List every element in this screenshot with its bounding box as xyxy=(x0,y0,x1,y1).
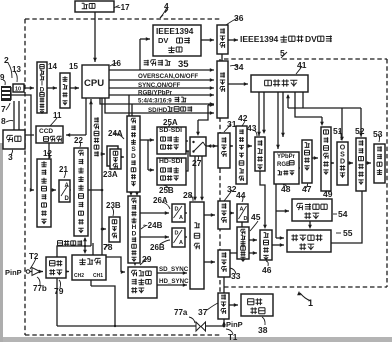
svg-text:IEEE1394: IEEE1394 xyxy=(156,26,194,36)
svg-text:43: 43 xyxy=(247,123,257,133)
svg-text:IEEE1394: IEEE1394 xyxy=(240,34,279,44)
svg-text:HD_SYNC: HD_SYNC xyxy=(159,278,189,285)
svg-text:YPbPr: YPbPr xyxy=(277,154,296,160)
svg-text:54: 54 xyxy=(338,209,348,219)
svg-text:26A: 26A xyxy=(153,196,168,205)
svg-text:PinP: PinP xyxy=(5,268,22,277)
svg-text:S: S xyxy=(340,152,345,159)
svg-text:OVERSCAN,ON/OFF: OVERSCAN,ON/OFF xyxy=(138,73,198,80)
svg-text:45: 45 xyxy=(251,212,261,222)
svg-text:S: S xyxy=(131,146,136,153)
svg-text:26B: 26B xyxy=(150,243,165,252)
svg-text:25A: 25A xyxy=(163,118,178,127)
svg-text:A: A xyxy=(179,215,183,221)
svg-text:PinP: PinP xyxy=(226,320,243,329)
svg-text:29: 29 xyxy=(142,254,152,264)
svg-text:24A: 24A xyxy=(108,129,123,138)
svg-text:A: A xyxy=(179,240,183,246)
svg-text:HD-SDI: HD-SDI xyxy=(159,158,183,165)
svg-text:52: 52 xyxy=(355,126,365,136)
svg-text:49: 49 xyxy=(323,189,333,199)
svg-text:5:4/4:3/16:9: 5:4/4:3/16:9 xyxy=(138,98,172,105)
svg-text:48: 48 xyxy=(281,184,291,194)
svg-text:CPU: CPU xyxy=(84,78,104,89)
svg-text:~24B: ~24B xyxy=(143,221,163,230)
svg-text:27: 27 xyxy=(192,158,202,168)
svg-text:34: 34 xyxy=(234,62,244,72)
svg-text:13: 13 xyxy=(12,65,21,74)
svg-text:77b: 77b xyxy=(33,284,47,293)
svg-text:D: D xyxy=(244,216,248,222)
svg-text:1: 1 xyxy=(308,298,313,308)
svg-text:DV: DV xyxy=(158,36,168,45)
svg-text:7: 7 xyxy=(1,104,6,114)
svg-text:RGB: RGB xyxy=(277,162,291,168)
svg-text:8: 8 xyxy=(1,116,6,126)
svg-text:28: 28 xyxy=(183,190,193,200)
svg-text:O: O xyxy=(340,145,346,152)
svg-text:11: 11 xyxy=(53,111,62,120)
svg-text:23A: 23A xyxy=(103,170,118,179)
svg-text:CCD: CCD xyxy=(39,128,53,135)
svg-text:37: 37 xyxy=(198,307,208,317)
svg-text:10: 10 xyxy=(15,87,21,93)
svg-text:25B: 25B xyxy=(159,186,174,195)
svg-text:33: 33 xyxy=(231,271,241,281)
svg-text:53: 53 xyxy=(373,129,383,139)
svg-text:4: 4 xyxy=(164,1,169,11)
svg-text:CH1: CH1 xyxy=(93,273,103,279)
svg-text:23B: 23B xyxy=(106,201,121,210)
svg-text:SD/HD: SD/HD xyxy=(148,107,168,114)
svg-text:SYNC,ON/OFF: SYNC,ON/OFF xyxy=(138,82,181,89)
svg-text:CH2: CH2 xyxy=(74,273,84,279)
svg-text:5: 5 xyxy=(280,48,285,58)
svg-text:RGB/YPbPr: RGB/YPbPr xyxy=(138,90,173,97)
svg-text:T1: T1 xyxy=(228,333,238,342)
svg-text:12: 12 xyxy=(43,149,52,158)
svg-text:T2: T2 xyxy=(29,252,39,261)
svg-text:21: 21 xyxy=(59,165,68,174)
svg-text:9: 9 xyxy=(0,73,5,82)
svg-text:D: D xyxy=(132,231,137,238)
svg-text:3: 3 xyxy=(8,152,13,162)
svg-text:DV: DV xyxy=(305,34,317,44)
svg-text:35: 35 xyxy=(178,59,189,70)
svg-text:79: 79 xyxy=(54,286,64,296)
svg-text:SD_SYNC: SD_SYNC xyxy=(159,266,189,273)
svg-text:46: 46 xyxy=(262,265,272,275)
svg-text:D: D xyxy=(65,196,70,202)
svg-text:15: 15 xyxy=(69,62,78,71)
svg-text:D: D xyxy=(340,159,345,166)
svg-text:41: 41 xyxy=(297,60,307,70)
svg-text:44: 44 xyxy=(236,190,246,200)
svg-text:47: 47 xyxy=(302,184,312,194)
svg-text:51: 51 xyxy=(333,126,343,136)
svg-text:~17: ~17 xyxy=(116,3,130,12)
svg-text:55: 55 xyxy=(343,228,353,238)
svg-text:16: 16 xyxy=(112,59,121,68)
svg-text:22: 22 xyxy=(74,136,83,145)
svg-text:D: D xyxy=(131,153,136,160)
svg-text:42: 42 xyxy=(238,113,248,123)
svg-text:38: 38 xyxy=(258,325,268,335)
svg-text:78: 78 xyxy=(103,242,113,252)
svg-text:36: 36 xyxy=(234,13,244,23)
svg-text:77a: 77a xyxy=(174,308,188,317)
svg-text:31: 31 xyxy=(227,119,237,129)
svg-text:SD-SDI: SD-SDI xyxy=(159,127,182,134)
svg-text:14: 14 xyxy=(48,62,57,71)
svg-text:2: 2 xyxy=(4,55,9,65)
